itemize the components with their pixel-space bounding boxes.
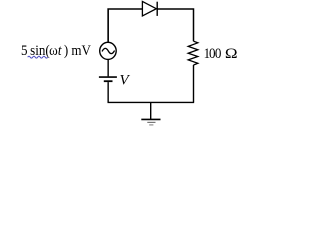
svg-text:5sin(ωt)mV: 5sin(ωt)mV xyxy=(21,42,91,59)
wire resistor to bottom xyxy=(193,65,195,102)
voltage source VS (AC) xyxy=(100,42,117,59)
svg-text:100: 100 xyxy=(204,45,222,62)
wire source to battery xyxy=(107,60,109,77)
wire battery to bottom xyxy=(107,82,109,102)
wire top-left (left vertical + top wire to diode anode) xyxy=(108,9,142,42)
squiggle spell-check underline xyxy=(28,56,48,58)
ground xyxy=(141,102,160,125)
wire bottom xyxy=(108,101,195,103)
label resistor unit Ω xyxy=(225,46,238,62)
label source value "5 sin(ωt) mV" xyxy=(21,42,91,59)
svg-text:Ω: Ω xyxy=(225,46,238,62)
label resistor value "100 Ω" xyxy=(204,45,222,62)
diode D1 xyxy=(142,1,157,16)
svg-text:V: V xyxy=(120,73,131,89)
wire top-right (diode cathode to resistor) xyxy=(157,9,193,41)
resistor R1 xyxy=(188,41,198,65)
battery V xyxy=(99,77,117,81)
